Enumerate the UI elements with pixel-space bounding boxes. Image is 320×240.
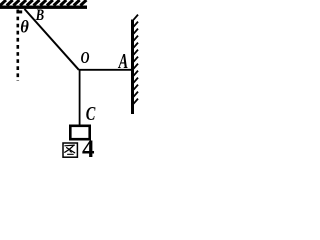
svg-text:θ: θ bbox=[20, 17, 29, 37]
rope OC bbox=[79, 70, 81, 126]
label A bbox=[118, 49, 128, 72]
caption glyph tu (figure) bbox=[63, 143, 77, 157]
label B bbox=[35, 7, 45, 25]
dashed vertical line from B bbox=[16, 10, 19, 82]
svg-text:O: O bbox=[81, 49, 90, 67]
weight C box bbox=[70, 126, 89, 139]
svg-text:C: C bbox=[86, 102, 96, 125]
svg-text:A: A bbox=[118, 49, 128, 72]
rope BO bbox=[25, 9, 79, 70]
rope OA bbox=[79, 69, 131, 71]
label O bbox=[81, 49, 90, 67]
right-angle mark at B bbox=[16, 10, 22, 13]
label theta bbox=[20, 17, 29, 37]
caption numeral 4 bbox=[82, 136, 95, 163]
wall hatching bbox=[134, 15, 139, 104]
ceiling hatching bbox=[0, 0, 86, 6]
ceiling bar bbox=[0, 6, 87, 9]
svg-text:B: B bbox=[35, 7, 45, 25]
wall bar bbox=[131, 20, 134, 115]
svg-text:4: 4 bbox=[82, 136, 95, 160]
label C bbox=[86, 102, 96, 125]
